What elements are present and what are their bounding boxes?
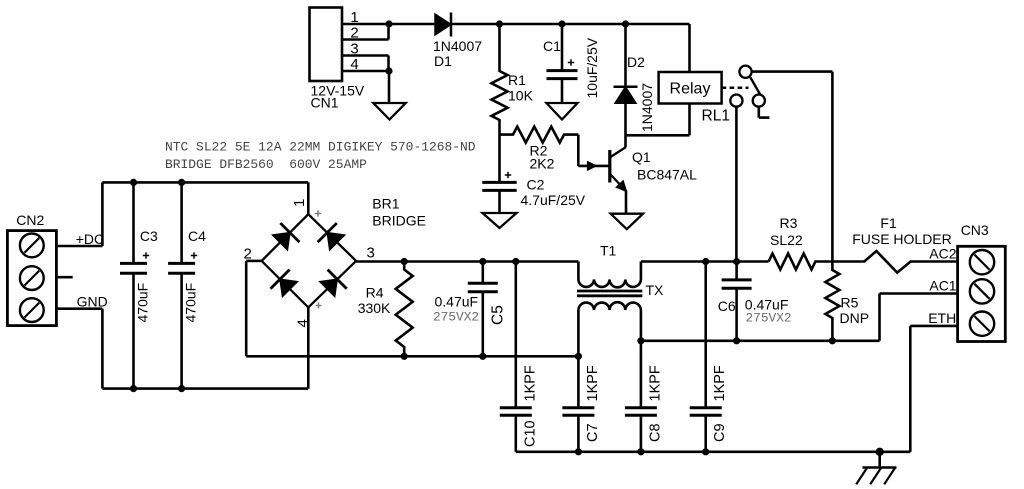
CN1 pin 2 <box>343 38 389 41</box>
svg-text:C9: C9 <box>712 423 728 442</box>
resistor R4 <box>396 262 413 357</box>
wire node3 rail right of T1 <box>641 260 769 263</box>
junction T1 bottom-left <box>575 353 582 360</box>
capacitor C5 <box>481 262 484 284</box>
junction C4 bottom <box>178 385 185 392</box>
CN3 screw 3 <box>970 312 994 336</box>
svg-text:1KPF: 1KPF <box>523 365 539 401</box>
BR1 diode top-left <box>273 233 290 250</box>
svg-text:R1: R1 <box>508 72 526 88</box>
transformer T1 primary winding <box>577 262 580 280</box>
wire +DC <box>56 245 102 248</box>
wire relay common to R3-R5 node <box>752 70 833 73</box>
junction C7 bottom <box>575 448 582 455</box>
capacitor C7 <box>577 356 580 407</box>
svg-text:BRIDGE: BRIDGE <box>372 213 426 229</box>
svg-text:2K2: 2K2 <box>530 156 555 172</box>
relay common contact <box>739 66 751 78</box>
wire earth rail <box>516 450 911 453</box>
fuse F1 wire right <box>911 260 959 263</box>
svg-text:NTC SL22 5E 12A 22MM DIGIKEY 5: NTC SL22 5E 12A 22MM DIGIKEY 570-1268-ND <box>165 140 476 155</box>
BR1 plus mark <box>315 213 321 215</box>
svg-text:1KPF: 1KPF <box>712 365 728 401</box>
capacitor C2 <box>482 181 516 184</box>
earth ground <box>878 452 881 468</box>
junction pins 3-4 <box>385 67 392 74</box>
resistor R2 <box>500 127 579 143</box>
capacitor C8 <box>640 341 643 408</box>
bridge rectifier BR1 outline <box>262 214 357 307</box>
relay NO contact <box>730 95 742 107</box>
svg-text:SL22: SL22 <box>770 232 803 248</box>
wire AC1 rail <box>641 339 880 342</box>
svg-text:1: 1 <box>291 199 308 207</box>
svg-text:C5: C5 <box>490 305 507 325</box>
junction R1 top <box>496 20 503 27</box>
relay NC contact <box>753 95 765 107</box>
junction T1 bottom-right <box>637 337 644 344</box>
svg-text:F1: F1 <box>880 215 897 231</box>
wire D1 to relay corner <box>452 23 690 26</box>
svg-text:T1: T1 <box>600 243 617 259</box>
svg-text:CN1: CN1 <box>311 95 339 111</box>
wire GND rail <box>102 387 308 390</box>
svg-text:275VX2: 275VX2 <box>746 311 792 326</box>
relay actuator dashed line <box>722 87 749 90</box>
svg-text:2: 2 <box>350 25 358 42</box>
svg-text:GND: GND <box>77 294 108 310</box>
svg-text:C2: C2 <box>527 177 545 193</box>
wire relay NO to C6 node <box>735 107 738 262</box>
svg-text:1N4007: 1N4007 <box>433 38 482 54</box>
fuse F1 <box>862 251 911 273</box>
svg-text:3: 3 <box>350 41 358 58</box>
svg-text:BR1: BR1 <box>372 196 399 212</box>
svg-text:4.7uF/25V: 4.7uF/25V <box>521 192 586 208</box>
svg-text:Q1: Q1 <box>632 149 651 165</box>
connector CN2 <box>7 231 56 326</box>
resistor R3 <box>769 254 833 270</box>
relay RL1 coil box <box>659 72 722 104</box>
wire CN1 pin4 to ground <box>388 71 391 103</box>
wire +DC rail <box>102 181 308 184</box>
svg-text:BC847AL: BC847AL <box>637 167 697 183</box>
junction C5 bottom <box>479 353 486 360</box>
svg-text:AC1: AC1 <box>929 278 956 294</box>
wire GND <box>56 307 102 310</box>
wire ETH <box>910 325 957 328</box>
CN2 screw 2 <box>20 266 44 290</box>
svg-text:3: 3 <box>367 245 375 262</box>
svg-text:1KPF: 1KPF <box>585 365 601 401</box>
capacitor C4 <box>180 182 183 263</box>
CN1 pin 3 <box>343 54 389 57</box>
diode D2 <box>624 24 627 87</box>
junction pins 1-2 <box>385 20 392 27</box>
BR1 diode top-right <box>327 233 344 250</box>
BR1 diode bottom-right <box>320 279 337 296</box>
relay NC stub <box>757 107 760 118</box>
capacitor C10 <box>514 262 517 408</box>
svg-text:+DC: +DC <box>76 231 104 247</box>
svg-text:C8: C8 <box>648 423 664 442</box>
svg-text:AC2: AC2 <box>929 246 956 262</box>
capacitor C3 <box>132 182 135 263</box>
wire Q1 collector to relay coil <box>626 134 690 137</box>
CN1 pin 1 <box>343 23 435 26</box>
svg-text:470uF: 470uF <box>183 283 199 323</box>
svg-text:D2: D2 <box>627 54 645 70</box>
CN3 screw 2 <box>970 279 994 303</box>
wire bridge node3 rail <box>356 260 578 263</box>
svg-text:0.47uF: 0.47uF <box>435 294 479 310</box>
svg-text:4: 4 <box>295 319 312 327</box>
svg-text:BRIDGE DFB2560 600V 25AMP: BRIDGE DFB2560 600V 25AMP <box>165 157 367 172</box>
CN1 pin 4 <box>343 70 389 73</box>
junction earth <box>876 448 884 456</box>
fuse F1 wire left <box>832 260 861 263</box>
capacitor C1 <box>561 24 564 71</box>
junction C5 top <box>479 258 486 265</box>
junction C9 top <box>702 258 709 265</box>
resistor R5 <box>825 262 839 341</box>
junction C9 bottom <box>702 448 709 455</box>
transistor Q1 <box>608 150 611 183</box>
junction R5 bottom <box>829 337 836 344</box>
junction C10 top <box>512 258 519 265</box>
CN2 screw 3 <box>20 298 44 322</box>
junction R4 bottom <box>401 353 408 360</box>
wire R2 to Q1 base <box>577 135 580 166</box>
svg-text:10K: 10K <box>508 88 534 104</box>
svg-text:C6: C6 <box>718 298 736 314</box>
svg-text:ETH: ETH <box>928 310 956 326</box>
svg-text:330K: 330K <box>358 300 391 316</box>
svg-text:Relay: Relay <box>670 81 711 98</box>
svg-text:R5: R5 <box>841 295 859 311</box>
C2 plus mark <box>505 174 511 176</box>
junction C6 top <box>733 258 740 265</box>
junction C3 bottom <box>130 385 137 392</box>
svg-text:CN3: CN3 <box>961 222 989 238</box>
svg-text:R3: R3 <box>780 215 798 231</box>
svg-text:RL1: RL1 <box>702 108 730 125</box>
capacitor C9 <box>704 262 707 408</box>
svg-text:275VX2: 275VX2 <box>433 310 479 325</box>
svg-text:D1: D1 <box>434 53 452 69</box>
svg-text:C4: C4 <box>188 228 206 244</box>
svg-text:4: 4 <box>350 56 358 73</box>
connector CN3 <box>958 246 1006 341</box>
svg-text:TX: TX <box>646 282 665 298</box>
C3 plus mark <box>143 255 149 257</box>
svg-text:DNP: DNP <box>840 310 870 326</box>
svg-text:CN2: CN2 <box>16 212 44 228</box>
svg-text:C7: C7 <box>585 423 601 442</box>
transformer T1 secondary winding <box>578 302 641 310</box>
svg-text:C10: C10 <box>523 420 539 447</box>
svg-text:1N4007: 1N4007 <box>639 83 655 132</box>
CN2 middle stub <box>56 276 72 279</box>
junction C6 bottom <box>733 337 740 344</box>
svg-text:1KPF: 1KPF <box>648 365 664 401</box>
junction C4 top <box>178 179 185 186</box>
svg-text:C1: C1 <box>543 38 561 54</box>
relay blade <box>750 77 760 95</box>
wire bridge node2 rail <box>246 260 261 263</box>
diode D1 <box>435 14 451 35</box>
svg-text:1: 1 <box>350 9 358 26</box>
junction C3 top <box>130 179 137 186</box>
svg-text:R4: R4 <box>366 285 384 301</box>
svg-text:10uF/25V: 10uF/25V <box>584 37 600 98</box>
C1 plus mark <box>568 62 574 64</box>
BR1 diode bottom-left <box>280 279 297 296</box>
ground under C1 <box>547 103 578 120</box>
ground under Q1 <box>611 214 643 230</box>
junction R4 top <box>401 258 408 265</box>
resistor R1 <box>492 24 508 182</box>
junction C1 top <box>558 20 565 27</box>
junction C8 bottom <box>637 448 644 455</box>
ground under CN1 <box>373 103 405 120</box>
BR1 minus mark <box>316 305 322 307</box>
Q1 base arrow <box>588 162 597 171</box>
transformer T1 core <box>577 290 642 293</box>
connector CN1 <box>310 8 343 82</box>
CN2 screw 1 <box>20 234 44 258</box>
CN3 screw 1 <box>970 250 994 274</box>
ground under C2 <box>483 213 517 228</box>
svg-text:C3: C3 <box>140 228 158 244</box>
junction D2 top <box>622 20 629 27</box>
C4 plus mark <box>191 255 197 257</box>
capacitor C6 <box>735 262 738 280</box>
svg-text:470uF: 470uF <box>135 283 151 323</box>
